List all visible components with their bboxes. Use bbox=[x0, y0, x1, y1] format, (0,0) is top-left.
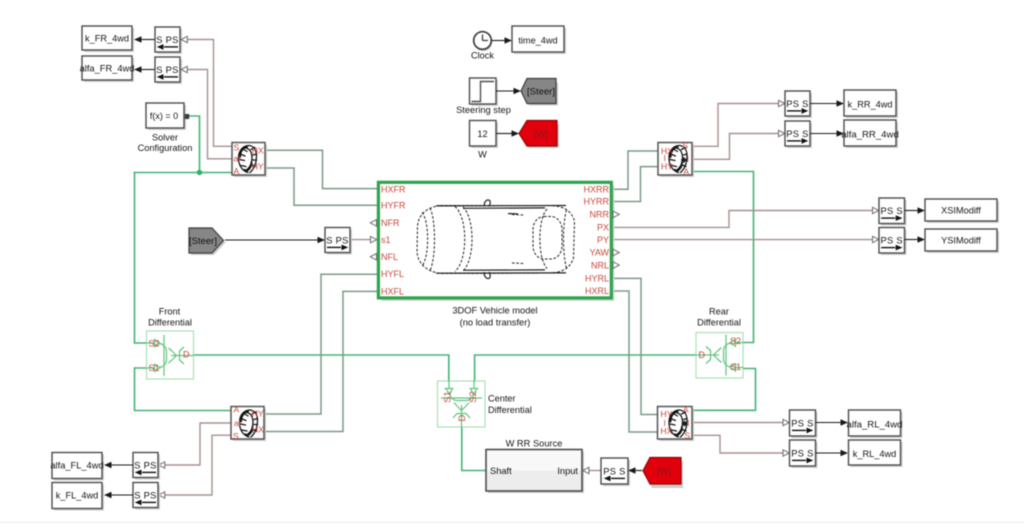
arrow steering step to [Steer] goto bbox=[496, 88, 521, 94]
svg-text:HX: HX bbox=[252, 146, 264, 156]
display block k_FL_4wd bbox=[52, 483, 104, 511]
svg-text:Differential: Differential bbox=[488, 405, 532, 415]
port arrow into PS S (alfa_RR) bbox=[779, 130, 785, 136]
svg-text:YSIModiff: YSIModiff bbox=[941, 236, 981, 246]
svg-text:[W]: [W] bbox=[534, 129, 548, 140]
svg-text:A: A bbox=[683, 404, 689, 414]
svg-text:PS S: PS S bbox=[881, 206, 903, 216]
unconnected port arrow NRR bbox=[613, 211, 619, 218]
wire: vehicle HXRR to RR wheel HX (gray-green) bbox=[613, 151, 658, 189]
svg-text:alfa_RL_4wd: alfa_RL_4wd bbox=[846, 420, 902, 431]
wire: green vertical down to Front Differential S2 bbox=[135, 173, 147, 344]
wire: horizontal green to FR wheel A port bbox=[135, 172, 233, 174]
wire: Rear Differential S1 to RL wheel A port bbox=[692, 369, 756, 411]
svg-text:D: D bbox=[457, 414, 468, 421]
faint bottom edge line bbox=[0, 522, 1024, 523]
from tag [W] red bbox=[643, 458, 683, 489]
wire: vehicle PY to PS S converter (brown) bbox=[613, 239, 873, 241]
svg-text:alfa_FR_4wd: alfa_FR_4wd bbox=[80, 64, 135, 74]
wire: FL wheel S port to S PS (brown) bbox=[165, 435, 232, 495]
svg-text:k_RL_4wd: k_RL_4wd bbox=[853, 449, 896, 459]
svg-text:HYFL: HYFL bbox=[381, 269, 404, 279]
svg-text:Clock: Clock bbox=[471, 51, 494, 61]
svg-text:Rear: Rear bbox=[709, 306, 729, 316]
svg-text:NFL: NFL bbox=[381, 252, 398, 262]
converter PS S (XSIModiff) bbox=[879, 198, 907, 226]
svg-text:Solver: Solver bbox=[152, 132, 178, 142]
svg-text:Front: Front bbox=[159, 306, 181, 316]
steering step source block bbox=[456, 78, 511, 115]
wire: steer S PS output to vehicle s1 port (brown) bbox=[350, 239, 371, 241]
svg-text:I: I bbox=[664, 418, 666, 428]
display block YSIModiff bbox=[925, 229, 999, 253]
converter PS S (k_RL) bbox=[790, 440, 818, 468]
svg-text:Shaft: Shaft bbox=[490, 466, 512, 476]
svg-text:S1: S1 bbox=[443, 391, 454, 403]
svg-text:PS S: PS S bbox=[786, 129, 808, 139]
svg-text:Center: Center bbox=[488, 394, 516, 404]
wire: FR wheel al port to S PS converter (brown) bbox=[188, 70, 233, 159]
converter S PS (to k_FR_4wd) bbox=[155, 27, 187, 54]
W RR Source subsystem block bbox=[486, 439, 589, 494]
svg-text:time_4wd: time_4wd bbox=[518, 36, 557, 46]
svg-text:PY: PY bbox=[597, 235, 609, 245]
wire: vehicle HYRL to RL wheel HY (gray-green) bbox=[613, 278, 658, 414]
svg-text:NRR: NRR bbox=[590, 210, 610, 220]
svg-text:PX: PX bbox=[597, 223, 609, 233]
unconnected port arrow NRL bbox=[613, 262, 619, 269]
arrow clock to time_4wd bbox=[492, 37, 513, 43]
car mirrors bbox=[484, 200, 490, 279]
svg-text:HY: HY bbox=[661, 409, 673, 419]
port arrow into PS S (k_RR) bbox=[779, 100, 785, 106]
svg-text:HXFR: HXFR bbox=[381, 184, 406, 194]
port arrow into PS S (k_RL) bbox=[783, 450, 789, 456]
svg-text:HYFR: HYFR bbox=[381, 200, 406, 210]
vehicle left port labels bbox=[381, 184, 406, 296]
arrow S PS to alfa_FR_4wd bbox=[134, 66, 155, 72]
wire: Front Differential D to Center Differential S1 bbox=[194, 355, 449, 381]
svg-text:HY: HY bbox=[661, 161, 673, 171]
wire: FR wheel S port to S PS converter (brown) bbox=[188, 40, 233, 147]
svg-text:PS S: PS S bbox=[786, 99, 808, 109]
converter S PS (to alfa_FR_4wd) bbox=[155, 57, 187, 84]
svg-text:Configuration: Configuration bbox=[138, 143, 193, 153]
svg-text:S PS: S PS bbox=[156, 65, 178, 75]
front differential block bbox=[147, 306, 194, 379]
solver configuration block f(x)=0 bbox=[138, 103, 193, 153]
wire: RR wheel A port to Rear Differential S2 bbox=[692, 172, 754, 343]
wire: vehicle HYRR to RR wheel HY (gray-green) bbox=[613, 167, 658, 202]
arrow PS S to alfa_RR_4wd bbox=[810, 130, 844, 136]
arrow [W] from tag to PS S bbox=[628, 467, 642, 473]
wire: vehicle HXFL to FL wheel HX (gray-green) bbox=[264, 291, 378, 431]
port arrow into S PS (k_FL) bbox=[159, 492, 165, 498]
arrow S PS to alfa_FL_4wd bbox=[104, 462, 133, 468]
wire: vehicle HYFL to FL wheel HY (gray-green) bbox=[264, 274, 378, 414]
svg-text:D: D bbox=[183, 350, 190, 360]
wire: FL wheel al port to S PS (brown) bbox=[165, 423, 232, 465]
wheel block RR (tire) bbox=[658, 141, 694, 177]
wire: Center Differential D to W RR Source Shaft bbox=[462, 427, 486, 471]
port arrow into PS S (alfa_RL) bbox=[783, 419, 789, 425]
svg-text:S PS: S PS bbox=[134, 460, 156, 470]
svg-text:HXRR: HXRR bbox=[583, 184, 609, 194]
svg-text:al: al bbox=[234, 418, 241, 428]
display block alfa_FR_4wd bbox=[80, 56, 135, 82]
svg-text:3DOF Vehicle model: 3DOF Vehicle model bbox=[452, 306, 537, 316]
converter S PS (steer input) bbox=[325, 228, 352, 255]
unconnected port arrow YAW bbox=[613, 249, 619, 256]
wheel block RL (tire) bbox=[658, 404, 695, 441]
wire: vehicle PX to PS S converter (brown) bbox=[613, 211, 873, 228]
converter PS S (W input, arrow left) bbox=[601, 458, 630, 486]
converter S PS (alfa_FL) bbox=[133, 453, 160, 480]
svg-text:PS S: PS S bbox=[791, 448, 813, 458]
svg-text:S PS: S PS bbox=[326, 235, 348, 245]
svg-text:S2: S2 bbox=[149, 338, 160, 348]
svg-text:S: S bbox=[233, 431, 239, 441]
svg-text:S: S bbox=[684, 430, 690, 440]
svg-text:I: I bbox=[687, 418, 689, 428]
svg-text:PS S: PS S bbox=[791, 418, 813, 428]
svg-text:HXFL: HXFL bbox=[381, 286, 404, 296]
svg-text:12: 12 bbox=[477, 129, 487, 139]
junction node on green network bbox=[197, 170, 202, 175]
converter PS S (alfa_RR) bbox=[785, 121, 812, 148]
arrow PS S to XSIModiff bbox=[905, 207, 926, 213]
svg-text:Input: Input bbox=[557, 466, 578, 476]
wire: PS S to W RR Source Input (brown) bbox=[589, 470, 601, 472]
display block k_RR_4wd bbox=[844, 90, 898, 118]
wire: Center Differential S2 to Rear Differential D bbox=[475, 355, 696, 381]
svg-text:HXRL: HXRL bbox=[585, 286, 609, 296]
display block XSIModiff bbox=[925, 199, 999, 223]
svg-text:HYRL: HYRL bbox=[585, 274, 609, 284]
display block alfa_FL_4wd bbox=[50, 453, 104, 481]
wheel block FR (tire) bbox=[232, 143, 267, 178]
svg-text:HY: HY bbox=[252, 409, 264, 419]
svg-text:Steering step: Steering step bbox=[456, 105, 511, 115]
port arrow into S PS (alfa_FL) bbox=[159, 462, 165, 468]
wire: RR wheel S port to PS S (brown) bbox=[692, 104, 779, 147]
svg-text:PS S: PS S bbox=[881, 236, 903, 246]
svg-text:HX: HX bbox=[252, 425, 264, 435]
wheel block FL (tire) bbox=[231, 405, 266, 441]
svg-text:Differential: Differential bbox=[697, 317, 741, 327]
vehicle model subsystem block bbox=[378, 182, 614, 327]
converter S PS (k_FL) bbox=[133, 483, 160, 510]
arrow 12 to [W] goto bbox=[496, 130, 519, 136]
svg-text:S: S bbox=[234, 143, 240, 153]
arrow PS S to YSIModiff bbox=[905, 236, 926, 242]
svg-text:k_FR_4wd: k_FR_4wd bbox=[85, 34, 129, 44]
converter PS S (k_RR) bbox=[785, 91, 812, 118]
vehicle right port labels bbox=[583, 184, 609, 296]
arrow [Steer] to S PS bbox=[225, 237, 325, 243]
arrow S PS to k_FL_4wd bbox=[104, 492, 133, 498]
svg-text:XSIModiff: XSIModiff bbox=[941, 206, 981, 216]
goto tag [W] red bbox=[519, 121, 559, 149]
svg-text:Differential: Differential bbox=[148, 318, 192, 328]
svg-text:f(x) = 0: f(x) = 0 bbox=[150, 111, 178, 121]
port arrow into PS S (YSIModiff) bbox=[873, 236, 879, 242]
svg-text:HX: HX bbox=[661, 426, 673, 436]
clock block bbox=[471, 32, 494, 61]
svg-text:S1: S1 bbox=[730, 362, 741, 372]
port arrow into PS S (XSIModiff) bbox=[873, 207, 879, 213]
svg-text:W RR Source: W RR Source bbox=[506, 439, 563, 449]
svg-text:S2: S2 bbox=[730, 336, 741, 346]
wire: vehicle HXRL to RL wheel HX (gray-green) bbox=[613, 291, 658, 432]
wire: f(x)=0 solver to green network bbox=[188, 116, 200, 173]
svg-text:A: A bbox=[683, 166, 689, 176]
svg-text:W: W bbox=[478, 150, 487, 160]
svg-text:alfa_RR_4wd: alfa_RR_4wd bbox=[841, 130, 899, 141]
svg-text:NFR: NFR bbox=[381, 218, 400, 228]
svg-text:S2: S2 bbox=[468, 391, 479, 403]
svg-text:S1: S1 bbox=[149, 363, 160, 373]
svg-text:k_FL_4wd: k_FL_4wd bbox=[56, 491, 98, 501]
svg-text:NRL: NRL bbox=[591, 260, 609, 270]
svg-text:(no load transfer): (no load transfer) bbox=[460, 318, 531, 328]
svg-text:S PS: S PS bbox=[156, 35, 178, 45]
svg-text:PS S: PS S bbox=[603, 466, 625, 476]
converter PS S (YSIModiff) bbox=[879, 228, 907, 256]
wire: Front Differential S1 to FL wheel A port bbox=[135, 368, 232, 411]
arrow PS S to k_RL_4wd bbox=[816, 450, 849, 456]
wire: RL wheel S port to PS S (brown) bbox=[692, 435, 783, 453]
svg-text:[W]: [W] bbox=[657, 467, 671, 478]
svg-text:HY: HY bbox=[252, 161, 264, 171]
svg-text:s1: s1 bbox=[381, 235, 391, 245]
svg-text:k_RR_4wd: k_RR_4wd bbox=[848, 100, 893, 110]
port arrow into vehicle s1 bbox=[371, 236, 377, 242]
arrow PS S to alfa_RL_4wd bbox=[816, 419, 849, 425]
unconnected port arrow NFR bbox=[370, 220, 376, 227]
unconnected port arrow NFL bbox=[370, 254, 376, 261]
wire: RR wheel I port to PS S (brown) bbox=[692, 134, 779, 160]
svg-text:S: S bbox=[682, 141, 688, 151]
car roof edges (solid) bbox=[436, 206, 566, 274]
arrow PS S to k_RR_4wd bbox=[810, 100, 844, 106]
svg-text:D: D bbox=[699, 350, 706, 360]
center differential block bbox=[438, 381, 532, 428]
display block alfa_RL_4wd bbox=[846, 410, 902, 438]
from tag [Steer] bbox=[189, 228, 226, 255]
svg-text:alfa_FL_4wd: alfa_FL_4wd bbox=[50, 461, 103, 471]
svg-text:HYRR: HYRR bbox=[583, 197, 609, 207]
rear differential block bbox=[696, 306, 744, 378]
svg-text:A: A bbox=[234, 166, 240, 176]
wire: FR wheel HX to vehicle HXFR (gray-green) bbox=[265, 150, 378, 188]
wire: FR wheel HY to vehicle HYFR (gray-green) bbox=[265, 168, 378, 205]
display block k_RL_4wd bbox=[849, 440, 903, 467]
converter PS S (alfa_RL) bbox=[790, 410, 818, 438]
svg-text:A: A bbox=[234, 405, 240, 415]
svg-text:I: I bbox=[687, 154, 689, 164]
svg-text:S PS: S PS bbox=[134, 490, 156, 500]
svg-text:[Steer]: [Steer] bbox=[527, 87, 555, 98]
goto tag [Steer] bbox=[521, 79, 558, 106]
display block time_4wd bbox=[512, 26, 566, 54]
svg-text:[Steer]: [Steer] bbox=[189, 236, 217, 247]
svg-text:al: al bbox=[234, 154, 241, 164]
wire: RL wheel I port to PS S (brown) bbox=[692, 422, 783, 424]
car top-view drawing bbox=[417, 206, 575, 274]
display block alfa_RR_4wd bbox=[841, 120, 899, 148]
arrow S PS to k_FR_4wd bbox=[134, 36, 155, 42]
svg-text:YAW: YAW bbox=[590, 248, 610, 258]
display block k_FR_4wd bbox=[82, 26, 134, 52]
constant block 12 bbox=[470, 121, 499, 160]
